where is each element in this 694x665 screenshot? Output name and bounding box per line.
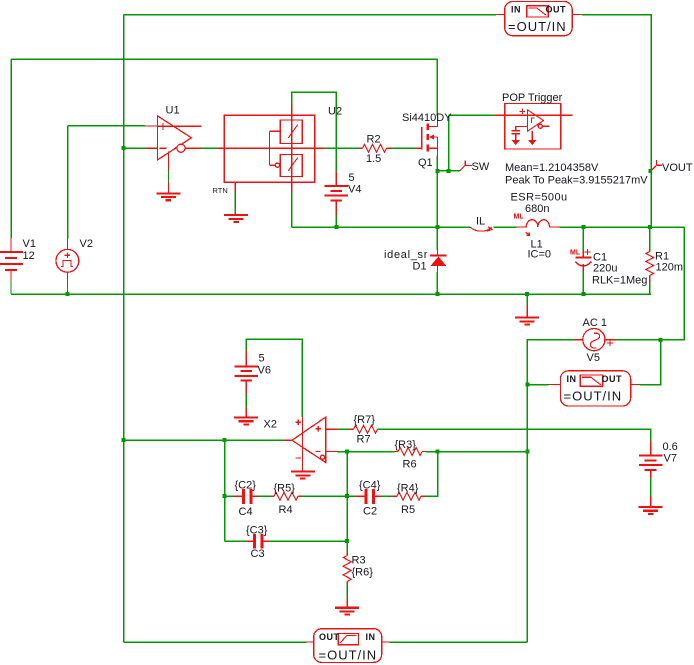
wire U2 out to R2 xyxy=(324,147,358,149)
svg-text:U1: U1 xyxy=(166,105,180,117)
node U1 minus / VOUT sense xyxy=(122,146,126,150)
svg-text:V6: V6 xyxy=(258,365,271,377)
wire C4 to R4 xyxy=(258,495,273,497)
svg-text:=OUT/IN: =OUT/IN xyxy=(564,389,623,404)
svg-text:R4: R4 xyxy=(279,504,293,516)
battery V1 xyxy=(0,238,23,294)
wire C1 bottom lead xyxy=(582,272,584,294)
label probe2 text xyxy=(564,374,623,404)
svg-text:R2: R2 xyxy=(367,134,381,146)
wire C3 row left xyxy=(225,540,247,542)
wire R7 to V7 xyxy=(378,429,651,441)
wire X2 minus stub xyxy=(337,451,347,453)
svg-text:{R5}: {R5} xyxy=(274,483,296,495)
svg-text:0.6: 0.6 xyxy=(663,441,678,453)
svg-text:C2: C2 xyxy=(363,506,377,518)
battery V4 xyxy=(325,171,349,215)
label C4 value xyxy=(235,480,257,519)
wire minus node to R6 xyxy=(347,451,395,453)
battery V7 xyxy=(639,442,663,514)
node R1 top xyxy=(648,225,652,229)
svg-text:U2: U2 xyxy=(328,106,342,118)
wire R6 to V5 return xyxy=(426,451,527,453)
wire input rail y59 xyxy=(11,58,437,60)
resistor R2 xyxy=(359,144,392,152)
label U1 xyxy=(166,105,180,117)
node C1 bottom xyxy=(581,292,585,296)
wire X2 plus to R7 xyxy=(337,428,350,430)
node C3 right xyxy=(345,539,349,543)
probe box loop-gain middle xyxy=(548,371,640,406)
wire U1 plus input horizontal xyxy=(68,125,146,127)
svg-text:120m: 120m xyxy=(656,262,684,274)
label L1 values xyxy=(511,192,568,261)
label Q1 model xyxy=(402,112,452,169)
source V5 AC xyxy=(574,329,616,351)
wire mid node to C2 xyxy=(347,495,356,497)
svg-text:POP Trigger: POP Trigger xyxy=(502,92,563,104)
node C1 top xyxy=(581,225,585,229)
svg-text:220u: 220u xyxy=(593,263,617,275)
svg-text:R6: R6 xyxy=(403,459,417,471)
svg-text:IC=0: IC=0 xyxy=(528,249,552,261)
label C2 value xyxy=(359,480,381,518)
svg-text:Q1: Q1 xyxy=(418,157,433,169)
diode D1 xyxy=(430,250,446,272)
wire X2 output xyxy=(124,439,285,441)
wire bottom left xyxy=(124,641,307,643)
capacitor C2 xyxy=(356,489,381,504)
node C4 branch mid xyxy=(223,494,227,498)
wire POP sense vertical xyxy=(448,115,450,171)
wire C4 left stub xyxy=(225,495,234,497)
svg-text:OUT: OUT xyxy=(546,5,567,15)
node R6 right xyxy=(525,450,529,454)
wire Q1 source to SW node xyxy=(436,155,438,227)
inductor L1 xyxy=(516,220,559,236)
svg-text:Peak To Peak=3.9155217mV: Peak To Peak=3.9155217mV xyxy=(505,175,648,187)
label X2 xyxy=(264,419,277,431)
wire U2 bottom to SW rail xyxy=(291,192,293,227)
terminal SW xyxy=(460,160,472,170)
wire U2 top to V4 xyxy=(292,92,337,171)
wire D1 bottom lead xyxy=(436,272,438,294)
wire V5 right xyxy=(616,227,684,340)
terminal VOUT xyxy=(648,160,662,173)
capacitor C1 xyxy=(575,249,591,272)
transistor Q1 xyxy=(416,116,438,156)
svg-text:Si4410DY: Si4410DY xyxy=(402,112,452,124)
svg-text:V7: V7 xyxy=(664,453,677,465)
svg-text:V2: V2 xyxy=(80,238,93,250)
node R5 top xyxy=(436,450,440,454)
wire SW rail to L1 xyxy=(494,226,517,228)
label V6 value xyxy=(258,353,271,377)
label SW xyxy=(472,161,490,173)
wire V5 left xyxy=(527,340,573,642)
node ground stem xyxy=(525,292,529,296)
capacitor C4 xyxy=(233,489,258,504)
svg-text:5: 5 xyxy=(259,353,265,365)
label R1 value xyxy=(655,251,683,274)
POP Trigger block xyxy=(494,104,572,150)
wire C2 to R5 xyxy=(381,495,393,497)
wire ground rail xyxy=(11,293,651,295)
label V2 xyxy=(80,238,93,250)
wire C3 to mid vertical xyxy=(269,540,347,542)
label probe3 text xyxy=(319,632,378,663)
svg-text:R7: R7 xyxy=(357,434,371,446)
node C4 branch top xyxy=(223,438,227,442)
svg-text:{C2}: {C2} xyxy=(235,480,257,492)
svg-text:V5: V5 xyxy=(587,352,600,364)
node SW stub left xyxy=(435,169,439,173)
label R2 value xyxy=(366,134,381,166)
svg-text:ML: ML xyxy=(570,250,581,257)
svg-text:RLK=1Meg: RLK=1Meg xyxy=(592,275,647,287)
resistor R7 xyxy=(350,425,378,433)
resistor R5 xyxy=(392,492,425,500)
wire U1 minus input xyxy=(124,147,146,149)
node V2 ground xyxy=(66,292,70,296)
label ML C1 xyxy=(570,250,581,257)
svg-text:ideal_sr: ideal_sr xyxy=(384,249,428,261)
svg-text:R3: R3 xyxy=(352,555,366,567)
probe box loop-gain lower xyxy=(307,629,390,663)
wire Q1 drain feed xyxy=(436,59,438,116)
ground main xyxy=(515,294,539,324)
label IL xyxy=(476,216,485,228)
svg-text:=OUT/IN: =OUT/IN xyxy=(319,648,378,663)
wire top rail VOUT sense xyxy=(124,14,497,16)
svg-text:V4: V4 xyxy=(348,184,361,196)
label C1 values xyxy=(592,252,647,287)
wire C4 branch vertical xyxy=(224,440,226,541)
resistor R6 xyxy=(395,448,427,456)
label R6 value xyxy=(395,439,417,471)
svg-text:C4: C4 xyxy=(239,506,253,518)
wire R5 up to R6 row xyxy=(425,452,438,497)
svg-text:R5: R5 xyxy=(401,504,415,516)
wire V6 top xyxy=(246,339,302,417)
label V7 value xyxy=(663,441,678,465)
node mid R4 C2 xyxy=(345,494,349,498)
wire probe2 in stub xyxy=(527,384,548,386)
svg-text:Mean=1.2104358V: Mean=1.2104358V xyxy=(505,162,599,174)
battery V6 xyxy=(234,351,258,425)
svg-text:AC 1: AC 1 xyxy=(583,317,607,329)
svg-text:{R7}: {R7} xyxy=(354,414,376,426)
svg-text:OUT: OUT xyxy=(602,374,623,384)
svg-text:ML: ML xyxy=(514,214,525,221)
wire V4 bottom lead xyxy=(335,215,337,227)
label probe1 text xyxy=(508,5,567,35)
svg-text:IN: IN xyxy=(511,5,521,15)
wire L1 to output node xyxy=(560,226,685,228)
label R3 value xyxy=(352,555,374,579)
resistor R3 xyxy=(343,553,351,584)
svg-text:D1: D1 xyxy=(413,261,427,273)
node V4 SW rail xyxy=(334,225,338,229)
node SW stub right xyxy=(447,169,451,173)
label R7 value xyxy=(354,414,376,446)
wire bottom right of probe3 xyxy=(390,641,528,643)
svg-text:5: 5 xyxy=(349,172,355,184)
ground R3 xyxy=(335,598,359,615)
wire R1 bottom lead xyxy=(649,283,651,295)
svg-text:=OUT/IN: =OUT/IN xyxy=(508,19,567,34)
wire SW rail xyxy=(292,226,471,228)
wire minus node vertical xyxy=(346,452,348,554)
resistor R4 xyxy=(272,492,301,500)
wire R1 top lead xyxy=(649,227,651,250)
svg-text:680n: 680n xyxy=(525,203,549,215)
node Q1 source SW rail xyxy=(435,225,439,229)
svg-text:1.5: 1.5 xyxy=(366,153,381,165)
svg-text:{C3}: {C3} xyxy=(246,525,268,537)
label R4 value xyxy=(274,483,296,517)
probe IL xyxy=(471,227,492,231)
IC U2 half-bridge driver xyxy=(218,104,325,222)
op-amp X2 xyxy=(284,417,337,479)
svg-text:{R4}: {R4} xyxy=(397,483,419,495)
wire U1 plus input vertical xyxy=(67,126,69,239)
wire R2 to Q1 gate xyxy=(392,147,416,149)
node X2 minus xyxy=(345,450,349,454)
wire SW stub horizontal xyxy=(437,170,459,172)
resistor R1 xyxy=(646,250,654,283)
svg-text:C3: C3 xyxy=(251,548,265,560)
svg-text:{R6}: {R6} xyxy=(352,567,374,579)
svg-text:{C4}: {C4} xyxy=(359,480,381,492)
label U2 xyxy=(328,106,342,118)
label AC 1 V5 xyxy=(583,317,607,364)
label POP Trigger xyxy=(502,92,563,104)
svg-text:12: 12 xyxy=(23,250,35,262)
svg-text:X2: X2 xyxy=(264,419,277,431)
svg-text:IL: IL xyxy=(476,216,485,228)
wire D1 top lead xyxy=(436,227,438,250)
wire left VOUT sense rail xyxy=(123,15,125,643)
svg-text:IN: IN xyxy=(567,374,577,384)
label RTN xyxy=(213,186,228,195)
wire U1 out to U2 xyxy=(201,147,217,149)
node D1 ground xyxy=(435,292,439,296)
svg-text:OUT: OUT xyxy=(319,632,340,642)
label V4 value xyxy=(348,172,361,196)
wire POP sense horizontal xyxy=(449,114,495,116)
svg-text:V1: V1 xyxy=(23,238,36,250)
label C3 value xyxy=(246,525,268,560)
node probe2 in xyxy=(525,383,529,387)
probe box loop-gain upper xyxy=(496,2,582,36)
label R5 value xyxy=(397,483,419,517)
node V5 right tap xyxy=(659,338,663,342)
wire V1 top lead xyxy=(10,59,12,238)
svg-text:RTN: RTN xyxy=(213,186,228,195)
wire C1 top lead xyxy=(582,227,584,251)
svg-text:ESR=500u: ESR=500u xyxy=(511,192,568,204)
capacitor C3 xyxy=(247,534,269,549)
source V2 pulse xyxy=(56,239,79,293)
label measurements xyxy=(505,162,648,187)
wire R3 to ground xyxy=(346,585,348,599)
label ML L1 xyxy=(514,214,525,221)
node X2 out / VOUT sense xyxy=(122,438,126,442)
svg-text:{R3}: {R3} xyxy=(395,439,417,451)
wire R4 to mid node xyxy=(301,495,347,497)
svg-text:VOUT: VOUT xyxy=(662,162,693,174)
label D1 model xyxy=(384,249,428,273)
wire top rail right of probe xyxy=(582,15,651,228)
op-amp U1 xyxy=(145,116,201,200)
label VOUT xyxy=(662,162,693,174)
svg-text:SW: SW xyxy=(472,161,490,173)
label V1 value xyxy=(23,238,36,262)
svg-text:IN: IN xyxy=(366,632,376,642)
wire probe2 out vertical xyxy=(640,340,661,385)
